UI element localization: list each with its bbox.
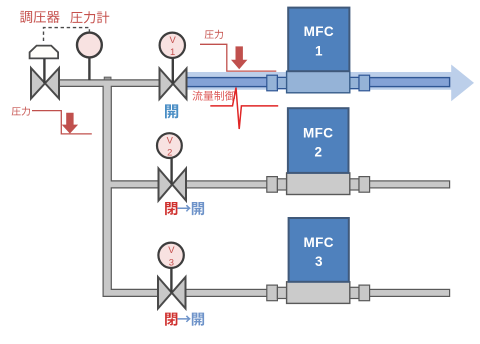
MFC1 inlet/outlet fittings bbox=[267, 75, 278, 91]
svg-text:2: 2 bbox=[314, 144, 322, 159]
label: flow control (流量制御) bbox=[192, 91, 235, 101]
svg-text:MFC: MFC bbox=[303, 235, 333, 250]
label: regulator (調圧器) bbox=[20, 11, 60, 23]
valve V3 head circle bbox=[158, 243, 183, 268]
valve V1 stem bbox=[172, 58, 174, 84]
pressure gauge stem bbox=[88, 57, 90, 80]
svg-text:2: 2 bbox=[167, 147, 172, 158]
regulator valve body bbox=[31, 68, 59, 99]
valve V2 head circle bbox=[157, 133, 182, 158]
MFC U3 (MFC 3) bbox=[289, 218, 349, 282]
MFC2 flow body bbox=[287, 173, 350, 195]
pressure drop arrow (left) bbox=[62, 113, 78, 134]
valve V1 body bbox=[160, 69, 187, 100]
pressure drop arrow (right) bbox=[231, 46, 247, 69]
regulator diaphragm dome bbox=[30, 46, 58, 59]
valve V1 head circle bbox=[160, 33, 185, 58]
MFC U2 (MFC 2) bbox=[288, 108, 349, 173]
label: V2 closed-to-open bbox=[165, 202, 177, 215]
flow arrow (gas out) bbox=[187, 65, 475, 102]
svg-text:V: V bbox=[169, 34, 176, 45]
pipe: MFC3 outlet bbox=[369, 289, 449, 296]
MFC3 flow body bbox=[287, 282, 350, 304]
pipe: V3 to MFC3 bbox=[185, 289, 269, 296]
svg-text:MFC: MFC bbox=[304, 24, 334, 39]
svg-text:3: 3 bbox=[169, 256, 174, 267]
flow control waveform bbox=[210, 88, 278, 129]
svg-text:MFC: MFC bbox=[303, 125, 333, 140]
svg-text:1: 1 bbox=[170, 46, 175, 57]
control line (dashed) bbox=[44, 28, 90, 41]
MFC3 inlet/outlet fittings bbox=[267, 285, 278, 301]
pipe: V2 to MFC2 bbox=[185, 181, 268, 188]
pressure gauge bbox=[77, 33, 102, 58]
pipe: MFC2 outlet bbox=[369, 181, 449, 188]
regulator stem bbox=[43, 58, 45, 83]
pointer line (left pressure) bbox=[32, 111, 92, 134]
label: V3 closed-to-open bbox=[165, 313, 177, 326]
svg-text:3: 3 bbox=[315, 254, 323, 269]
svg-text:V: V bbox=[167, 134, 174, 145]
pipe: inlet header and manifold bbox=[58, 80, 162, 297]
label: pressure gauge (圧力計) bbox=[70, 11, 109, 23]
pointer line (right pressure) bbox=[200, 44, 276, 71]
valve V2 stem bbox=[170, 158, 172, 185]
valve V3 stem bbox=[170, 268, 172, 293]
svg-text:1: 1 bbox=[315, 43, 323, 58]
MFC1 flow body (active) bbox=[287, 71, 350, 93]
svg-text:V: V bbox=[168, 244, 175, 255]
junction weld tick bbox=[104, 77, 111, 80]
pipe: V1 to MFC1 (active, blue) bbox=[187, 78, 450, 87]
MFC2 inlet/outlet fittings bbox=[267, 177, 278, 193]
valve V3 body bbox=[158, 277, 186, 309]
valve V2 body bbox=[159, 169, 187, 201]
label: pressure (left) bbox=[12, 107, 30, 116]
label: V1 open (開) bbox=[165, 104, 178, 118]
label: pressure (right) bbox=[205, 30, 223, 39]
MFC U1 (MFC 1) bbox=[288, 8, 349, 72]
